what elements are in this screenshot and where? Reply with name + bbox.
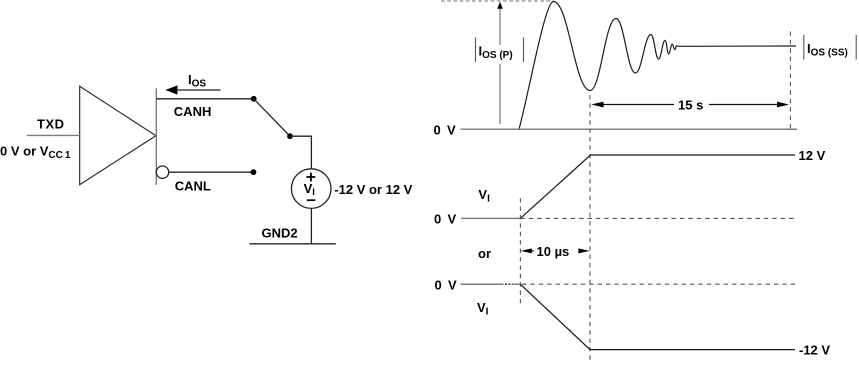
- svg-text:0 V: 0 V: [434, 123, 456, 138]
- svg-text:12 V: 12 V: [799, 148, 826, 163]
- output bus line: [155, 88, 157, 185]
- svg-text:10 µs: 10 µs: [537, 244, 570, 259]
- 15 s dimension arrow: [591, 98, 789, 113]
- switch S1 blade: [254, 99, 290, 136]
- IOS arrow: [165, 85, 220, 94]
- ground GND2 rail: [250, 243, 336, 245]
- svg-text:CANL: CANL: [175, 179, 211, 194]
- switch pole node: [287, 133, 293, 139]
- svg-text:CANH: CANH: [174, 104, 212, 119]
- dashed 0V reference middle: [520, 217, 795, 219]
- svg-text:TXD: TXD: [37, 116, 65, 131]
- node open contact CANL: [251, 169, 257, 175]
- wire pole to source: [290, 136, 311, 169]
- IOS(P) measure arrow: [497, 2, 503, 124]
- dashed 0V reference lower: [522, 283, 796, 285]
- |IOS(P)| label: [476, 38, 524, 63]
- voltage source VI: [291, 169, 331, 209]
- driver buffer U1: [80, 86, 156, 184]
- 0 V axis line lower with break dots: [461, 283, 521, 285]
- IOS waveform curve: [519, 2, 796, 130]
- svg-text:-12 V: -12 V: [799, 343, 830, 358]
- svg-text:0 V: 0 V: [434, 212, 456, 227]
- wire source to ground: [310, 208, 312, 243]
- svg-text:15 s: 15 s: [678, 98, 703, 113]
- 10 us dimension arrow: [521, 244, 590, 259]
- svg-text:0 V: 0 V: [435, 278, 457, 293]
- VI negative ramp waveform: [520, 284, 795, 349]
- dashed marker at steady state x=790: [789, 32, 791, 129]
- wire TXD input: [27, 134, 80, 136]
- CANL inverter bubble: [156, 166, 168, 178]
- 0 V axis line top plot: [461, 128, 798, 130]
- dashed marker at first minimum x=590: [589, 95, 591, 362]
- 0 V axis line middle: [461, 217, 520, 219]
- svg-text:or: or: [478, 246, 491, 261]
- top plot: peak reference dashed line: [441, 0, 554, 2]
- svg-text:GND2: GND2: [262, 226, 298, 241]
- dashed marker at ramp start x=520: [519, 198, 521, 303]
- wire CANH: [156, 98, 253, 100]
- |IOS(SS)| label: [804, 35, 856, 60]
- VI positive ramp waveform: [520, 155, 795, 218]
- svg-text:-12 V or 12 V: -12 V or 12 V: [334, 182, 412, 197]
- wire CANL: [168, 171, 253, 173]
- node switch contact CANH: [251, 96, 257, 102]
